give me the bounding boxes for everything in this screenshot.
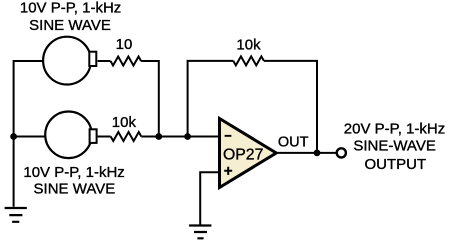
wire top-left horizontal	[14, 60, 44, 62]
wire feedback down to output node	[264, 61, 317, 153]
wire left rail	[13, 60, 15, 207]
node A junction dot	[155, 133, 162, 140]
svg-text:SINE WAVE: SINE WAVE	[34, 181, 116, 198]
wire middle row left	[14, 136, 46, 138]
svg-text:10: 10	[116, 36, 133, 53]
wire V1 box to R1	[98, 60, 111, 62]
op-amp inverting input minus sign	[225, 135, 232, 137]
svg-text:OUTPUT: OUTPUT	[364, 156, 426, 173]
resistor R2 zigzag	[111, 132, 142, 141]
wire R1 to node A	[141, 61, 159, 137]
ground under op-amp	[189, 226, 211, 239]
svg-text:OP27: OP27	[223, 147, 263, 164]
op-amp non-inverting input plus sign	[224, 167, 232, 175]
node B junction dot	[184, 133, 191, 140]
svg-text:10k: 10k	[236, 36, 261, 53]
svg-text:SINE-WAVE: SINE-WAVE	[353, 138, 436, 155]
wire non-inverting input to ground	[200, 172, 219, 224]
op-amp U1 triangle	[220, 119, 277, 188]
terminal box of V2	[90, 129, 97, 143]
svg-text:10k: 10k	[112, 114, 137, 131]
svg-text:OUT: OUT	[278, 135, 309, 151]
resistor R3 zigzag	[233, 56, 264, 65]
sine source V2	[45, 112, 92, 159]
svg-text:10V P-P, 1-kHz: 10V P-P, 1-kHz	[20, 0, 121, 17]
wire feedback up and across	[188, 61, 234, 137]
node output junction dot	[314, 150, 321, 157]
resistor R1 zigzag	[111, 57, 142, 66]
output terminal circle	[337, 148, 346, 157]
svg-text:20V P-P, 1-kHz: 20V P-P, 1-kHz	[344, 121, 445, 138]
wire summing row to op-amp inverting input	[141, 136, 219, 138]
sine source V1	[43, 37, 91, 85]
wire output	[275, 152, 336, 154]
svg-text:SINE WAVE: SINE WAVE	[29, 17, 111, 34]
node left-rail junction dot	[10, 133, 17, 140]
wire V2 box to R2	[98, 136, 111, 138]
terminal box of V1	[89, 52, 96, 66]
ground bottom-left	[5, 208, 27, 222]
svg-text:10V P-P, 1-kHz: 10V P-P, 1-kHz	[23, 164, 124, 181]
